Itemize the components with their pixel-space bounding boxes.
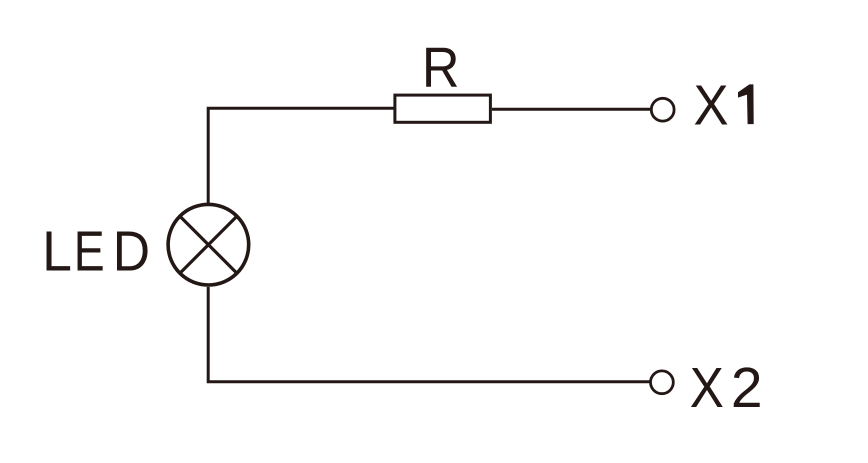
svg-text:X: X xyxy=(694,72,729,136)
svg-text:R: R xyxy=(422,35,460,99)
svg-text:2: 2 xyxy=(731,356,763,420)
svg-text:X: X xyxy=(690,356,724,419)
svg-text:L: L xyxy=(42,219,72,283)
svg-text:E: E xyxy=(74,220,105,284)
svg-text:D: D xyxy=(113,219,150,283)
